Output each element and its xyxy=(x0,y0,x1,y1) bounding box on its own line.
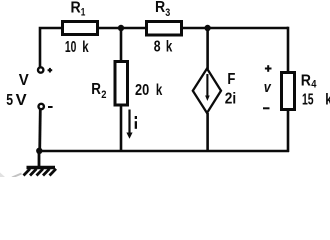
svg-text:2: 2 xyxy=(101,89,106,101)
svg-text:V: V xyxy=(19,72,30,89)
svg-text:R: R xyxy=(301,73,311,90)
label - at terminal xyxy=(48,106,53,108)
node junction dot at F branch xyxy=(204,25,210,31)
wire: R2 branch upper xyxy=(120,28,123,62)
svg-text:R: R xyxy=(71,0,81,17)
arrow inside F pointing down xyxy=(206,74,208,97)
svg-text:R: R xyxy=(91,81,101,98)
svg-text:k: k xyxy=(156,82,163,99)
svg-text:3: 3 xyxy=(165,7,170,19)
svg-text:F: F xyxy=(227,71,235,88)
ground symbol xyxy=(24,168,57,176)
svg-text:20: 20 xyxy=(135,82,149,99)
label + at terminal xyxy=(48,68,53,73)
resistor R3 xyxy=(147,22,182,36)
svg-text:1: 1 xyxy=(81,6,86,18)
svg-text:k: k xyxy=(82,39,89,56)
scan smudge bottom-left xyxy=(12,174,22,178)
wire: stub down to ground xyxy=(38,151,41,167)
label - polarity of v xyxy=(263,107,270,109)
svg-text:R: R xyxy=(155,0,165,16)
node junction dot at ground xyxy=(36,148,42,154)
label i xyxy=(135,121,137,129)
wire: top-left corner from V+ up and right to R1 xyxy=(40,28,62,67)
dependent current source F (diamond) xyxy=(193,69,221,114)
terminal - of source V xyxy=(39,104,44,109)
wire: R3 to top-right corner xyxy=(182,27,288,30)
resistor R1 xyxy=(63,22,98,35)
resistor R4 xyxy=(282,73,295,110)
svg-text:4: 4 xyxy=(311,78,317,90)
svg-text:5: 5 xyxy=(6,92,13,109)
resistor R2 xyxy=(115,62,128,106)
wire: R2 branch lower xyxy=(120,105,123,151)
wire: right vertical down to R4 xyxy=(287,27,290,73)
label + polarity of v xyxy=(265,65,272,72)
svg-text:10: 10 xyxy=(65,39,77,56)
node junction dot at R2 branch xyxy=(118,25,124,31)
current arrow i xyxy=(128,110,130,134)
svg-text:8: 8 xyxy=(154,39,161,56)
wire: bottom rail xyxy=(37,150,290,153)
svg-text:15: 15 xyxy=(302,92,314,109)
wire: R1 to R3 xyxy=(98,27,146,30)
svg-text:V: V xyxy=(16,92,28,109)
wire: F branch lower xyxy=(206,113,209,151)
wire: V- terminal down to bottom rail xyxy=(38,110,41,152)
svg-text:k: k xyxy=(325,92,330,109)
svg-text:k: k xyxy=(166,39,173,56)
terminal + of source V xyxy=(38,67,43,72)
wire: F branch upper xyxy=(206,28,209,69)
wire: R4 bottom to bottom rail xyxy=(287,110,290,153)
svg-text:2i: 2i xyxy=(225,90,236,107)
